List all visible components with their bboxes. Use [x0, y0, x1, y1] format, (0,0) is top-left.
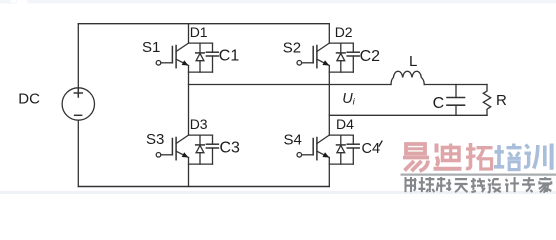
wire bridge output lower (node B to load)	[329, 114, 487, 116]
svg-text:S4: S4	[284, 132, 302, 149]
svg-text:S2: S2	[283, 39, 301, 56]
wire right leg lower (S4 emitter to bottom rail)	[328, 158, 330, 187]
wire bridge output upper (node A to inductor)	[189, 84, 392, 86]
diode D3	[196, 135, 205, 164]
svg-text:D1: D1	[190, 24, 208, 40]
svg-text:R: R	[496, 92, 507, 109]
capacitor C2 snubber	[347, 43, 359, 72]
inductor L	[391, 71, 424, 84]
voltage source DC	[62, 88, 94, 120]
wire snubber loop top S2	[329, 42, 353, 44]
wire snubber loop bottom S4	[329, 163, 353, 165]
wire left leg lower (S3 emitter to bottom rail)	[188, 158, 190, 187]
transistor IGBT S1	[156, 43, 188, 68]
wire left leg upper (top rail to S1 collector)	[188, 24, 190, 43]
watermark underline	[401, 174, 556, 176]
bottom page strip	[0, 191, 556, 194]
wire DC source down to bottom rail	[77, 120, 79, 186]
svg-text:C4: C4	[362, 141, 381, 157]
wire left from rail down to DC source	[77, 24, 79, 88]
wire left leg middle, node A (S1 emitter to S3 collector)	[188, 66, 190, 136]
wire bottom rail	[78, 186, 329, 188]
watermark logo line 1: yi di tuo pei xun (CJK approximated with strokes)	[403, 143, 552, 171]
wire inductor to load	[424, 84, 487, 86]
svg-text:i: i	[353, 97, 356, 108]
wire snubber loop bottom S3	[189, 163, 213, 165]
capacitor C filter	[447, 85, 465, 116]
wire snubber loop top S3	[189, 134, 213, 136]
diode D1	[196, 43, 205, 72]
wire right leg middle, node B (S2 emitter to S4 collector, crosses output wire)	[328, 66, 330, 136]
top page strip	[0, 0, 556, 4]
wire snubber loop bottom S2	[329, 71, 353, 73]
diode D4	[337, 135, 346, 164]
svg-text:C3: C3	[220, 140, 241, 157]
svg-text:S3: S3	[146, 131, 164, 148]
capacitor C4 snubber	[347, 135, 359, 164]
svg-text:C1: C1	[219, 48, 240, 65]
wire snubber loop bottom S1	[189, 71, 213, 73]
resistor R	[483, 85, 490, 116]
svg-text:D3: D3	[190, 116, 208, 132]
watermark line 2: she pin he tian xian she ji zhuan jia (gray CJK approximated)	[405, 177, 552, 192]
wire top rail	[78, 23, 329, 25]
svg-text:C: C	[433, 95, 445, 112]
transistor IGBT S3	[156, 135, 188, 160]
transistor IGBT S2	[297, 43, 329, 68]
capacitor C3 snubber	[206, 135, 218, 164]
diode D2	[337, 43, 346, 72]
svg-text:S1: S1	[142, 39, 160, 56]
transistor IGBT S4	[297, 135, 329, 160]
svg-text:DC: DC	[18, 90, 40, 107]
svg-text:L: L	[409, 53, 417, 70]
wire snubber loop top S1	[189, 42, 213, 44]
wire right leg upper (top rail to S2 collector)	[328, 24, 330, 43]
svg-text:C2: C2	[360, 48, 381, 65]
svg-text:D4: D4	[336, 116, 354, 132]
label C4 prime mark	[379, 141, 383, 147]
svg-text:D2: D2	[335, 24, 353, 40]
capacitor C1 snubber	[206, 43, 218, 72]
wire snubber loop top S4	[329, 134, 353, 136]
